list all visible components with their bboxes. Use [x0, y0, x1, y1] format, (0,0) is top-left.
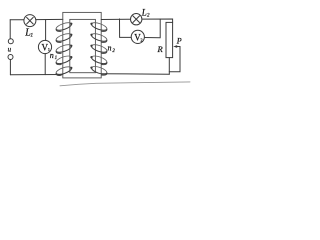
wire top rail left (corner to lamp L1)	[10, 19, 24, 21]
wire left vertical (bottom terminal to bottom rail)	[9, 60, 11, 75]
svg-text:1: 1	[55, 56, 58, 61]
scan artifact faint line bottom	[60, 82, 190, 86]
svg-text:2: 2	[147, 13, 150, 18]
wire lamp L1 to transformer	[36, 18, 63, 20]
primary winding n1 loop 5	[56, 67, 71, 76]
primary winding n1 loop 4	[56, 56, 71, 65]
svg-text:2: 2	[112, 49, 115, 54]
wire bottom rail left	[10, 74, 62, 76]
AC source terminal bottom	[8, 55, 13, 60]
svg-text:L: L	[141, 7, 147, 17]
secondary winding wire dots	[90, 23, 92, 69]
voltmeter V2	[131, 30, 144, 43]
AC source terminal top	[8, 39, 13, 44]
secondary winding n2 loop 5	[92, 67, 107, 76]
secondary winding n2 loop 4	[92, 56, 107, 65]
svg-text:R: R	[157, 44, 164, 54]
transformer core outer rectangle	[63, 12, 101, 78]
voltmeter V1	[38, 40, 51, 53]
primary winding n1 loop 1	[56, 23, 71, 32]
primary winding n1 loop 2	[56, 34, 71, 43]
resistor R body	[166, 22, 173, 57]
svg-text:u: u	[8, 45, 12, 53]
secondary winding n2 loop 2	[92, 34, 107, 43]
primary winding wire dots	[70, 23, 72, 69]
wire V1 bottom lead	[44, 54, 46, 75]
svg-text:2: 2	[140, 38, 142, 43]
svg-text:P: P	[176, 37, 182, 46]
secondary winding n2 loop 3	[92, 45, 107, 54]
secondary winding n2 loop 1	[92, 23, 107, 32]
lamp L2	[131, 14, 142, 25]
wire bottom rail right	[102, 73, 169, 76]
transformer core inner rectangle	[70, 19, 96, 72]
lamp L1	[24, 15, 36, 27]
wire V2 left branch	[120, 19, 132, 38]
wire secondary top rail to lamp L2	[101, 18, 130, 20]
primary winding n1 loop 3	[56, 45, 71, 54]
rheostat slider arrow P	[173, 45, 180, 48]
svg-text:n: n	[50, 51, 54, 60]
wire left vertical (top terminal to top rail)	[9, 20, 11, 39]
svg-text:1: 1	[30, 32, 33, 38]
wire slider vertical and link to bottom lead	[169, 47, 180, 72]
wire V2 right branch	[144, 19, 160, 38]
wire lamp L2 to resistor top corner	[142, 19, 173, 22]
wire resistor bottom lead	[168, 58, 170, 75]
svg-text:n: n	[108, 44, 112, 53]
wire V1 top lead	[45, 20, 47, 41]
